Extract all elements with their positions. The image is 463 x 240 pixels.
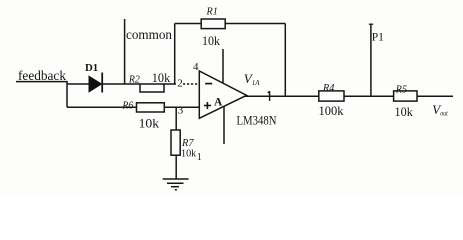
- svg-text:P1: P1: [372, 31, 384, 43]
- svg-text:4: 4: [193, 61, 199, 73]
- wire common vertical: [124, 19, 126, 85]
- diode D1: [89, 73, 102, 93]
- wire node3 to R7: [175, 107, 177, 130]
- svg-text:100k: 100k: [319, 104, 345, 118]
- wire feedback underline: [16, 81, 68, 83]
- svg-text:10k: 10k: [202, 34, 221, 48]
- wire R4 to R5: [344, 95, 394, 97]
- resistor R2: [140, 84, 164, 92]
- svg-text:feedback: feedback: [18, 69, 66, 84]
- svg-text:2: 2: [177, 78, 183, 90]
- svg-text:D1: D1: [85, 62, 98, 74]
- svg-text:R4: R4: [322, 82, 335, 94]
- node P1 vertical: [369, 24, 373, 97]
- svg-text:A: A: [214, 97, 223, 109]
- svg-text:R5: R5: [395, 84, 408, 96]
- svg-text:R6: R6: [122, 100, 134, 112]
- resistor R5: [394, 91, 417, 101]
- svg-text:10k: 10k: [395, 105, 414, 119]
- wire R1 to feedback drop: [225, 23, 285, 25]
- wire R6 to node 3: [164, 106, 199, 108]
- op-amp plus sign: [204, 102, 211, 109]
- wire D1 cathode to R2: [102, 83, 140, 85]
- wire R7 to ground: [175, 155, 177, 179]
- svg-text:V1A: V1A: [244, 71, 260, 87]
- resistor R7: [171, 130, 180, 155]
- wire left vertical drop: [66, 82, 68, 108]
- wire R5 to Vout: [417, 95, 453, 97]
- svg-text:1: 1: [197, 152, 202, 163]
- wire node2 to R1 vertical: [174, 24, 176, 85]
- power stub pin top: [222, 49, 224, 83]
- wire node2 dashed to inverting input: [183, 83, 199, 85]
- svg-text:3: 3: [178, 105, 184, 117]
- op-amp U1 triangle: [199, 71, 246, 118]
- op-amp minus sign: [205, 83, 212, 85]
- svg-text:LM348N: LM348N: [237, 113, 277, 127]
- svg-text:Vout: Vout: [432, 102, 448, 118]
- ground: [163, 179, 189, 190]
- power stub pin bottom: [223, 106, 225, 144]
- wire feedback drop to output: [284, 24, 286, 97]
- svg-text:10k: 10k: [181, 148, 197, 160]
- wire lower rail to R6: [67, 106, 137, 108]
- svg-text:R1: R1: [206, 5, 218, 17]
- resistor R4: [319, 91, 344, 101]
- wire R2 to node 2: [164, 83, 176, 85]
- resistor R1: [201, 19, 225, 29]
- wire to R1: [175, 23, 202, 25]
- output wire: [245, 95, 319, 97]
- svg-text:R2: R2: [128, 74, 140, 86]
- pin 1 tick: [268, 91, 270, 101]
- wire feedback to D1 anode: [67, 83, 90, 85]
- resistor R6: [137, 103, 165, 112]
- svg-text:common: common: [126, 28, 172, 43]
- svg-text:10k: 10k: [152, 71, 171, 85]
- svg-text:10k: 10k: [139, 117, 160, 131]
